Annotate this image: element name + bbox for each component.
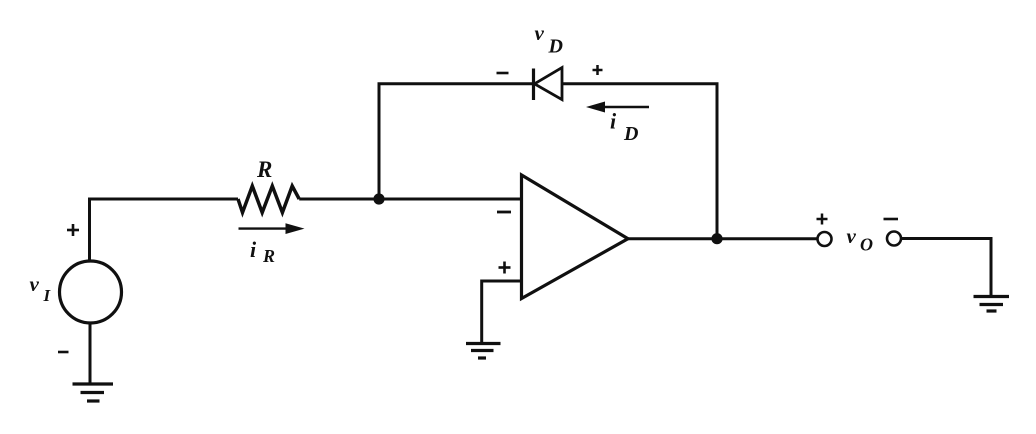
svg-text:v: v: [847, 224, 857, 248]
svg-text:O: O: [860, 235, 873, 255]
label − (source bottom): [58, 351, 69, 354]
node A (junction dot): [373, 193, 384, 204]
diode D1 cathode bar: [532, 69, 535, 101]
op-amp inverting input marker −: [497, 211, 511, 214]
op-amp noninverting input marker +: [499, 262, 511, 274]
ground (right, output return): [974, 297, 1010, 312]
wire: source bottom to ground: [89, 323, 92, 384]
terminal − (open circle): [887, 232, 901, 246]
svg-text:v: v: [535, 21, 545, 45]
svg-text:i: i: [250, 237, 257, 262]
ground (op-amp non-inverting input): [466, 344, 501, 359]
voltage source v_I: [60, 261, 122, 323]
label − (above − terminal): [884, 218, 899, 221]
wire: noninverting input to ground: [482, 281, 522, 344]
label v_O: [847, 224, 874, 255]
wire: source top to resistor: [90, 199, 239, 262]
resistor R: [238, 186, 299, 213]
svg-text:v: v: [30, 272, 40, 296]
svg-text:I: I: [43, 286, 52, 305]
terminal + (open circle): [818, 232, 832, 246]
diode D1 triangle: [535, 68, 563, 100]
label − (diode cathode side): [497, 72, 509, 75]
label + (above + terminal): [817, 214, 828, 225]
node B (output junction dot): [711, 233, 722, 244]
label + (source top): [67, 224, 79, 236]
label i_R: [250, 237, 275, 266]
label v_I: [30, 272, 52, 305]
svg-text:D: D: [623, 123, 638, 145]
arrow i_D: [586, 102, 649, 113]
label i_D: [610, 109, 638, 146]
op-amp U1: [522, 175, 629, 299]
wire: resistor to op-amp inverting input: [299, 198, 521, 201]
svg-text:R: R: [262, 246, 275, 266]
svg-text:D: D: [548, 36, 563, 58]
label + (diode anode side): [593, 65, 603, 75]
svg-text:R: R: [256, 157, 272, 182]
ground (source): [73, 384, 114, 401]
wire: node A up and across to diode cathode: [379, 84, 534, 199]
svg-text:i: i: [610, 109, 617, 134]
wire: op-amp output to + terminal: [628, 237, 818, 240]
wire: − terminal to right ground: [901, 239, 991, 297]
wire: diode anode to top-right corner down to node B: [562, 84, 717, 239]
arrow i_R: [239, 223, 305, 234]
label v_D: [535, 21, 563, 58]
